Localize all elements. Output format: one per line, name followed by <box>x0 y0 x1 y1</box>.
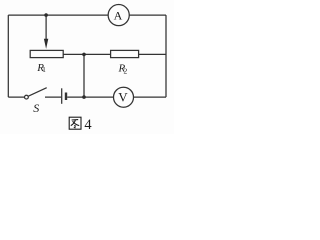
svg-text:1: 1 <box>42 65 46 74</box>
svg-text:4: 4 <box>84 117 92 133</box>
svg-text:S: S <box>33 101 39 115</box>
svg-text:V: V <box>118 90 128 105</box>
svg-text:A: A <box>114 8 123 22</box>
svg-text:2: 2 <box>124 67 128 76</box>
